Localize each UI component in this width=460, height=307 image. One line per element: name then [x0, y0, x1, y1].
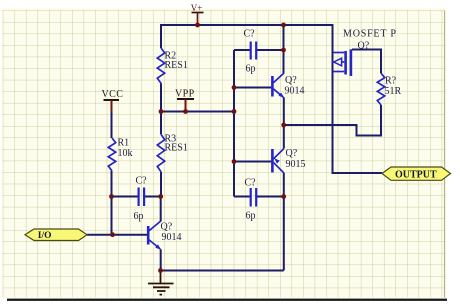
resistor R1: [108, 138, 132, 171]
wire VCC to R1: [111, 111, 113, 139]
wire right vertical upper: [283, 24, 285, 74]
wire R2 bottom lead: [160, 83, 162, 111]
wire VPP node row: [160, 111, 234, 113]
wire V+ rail top: [161, 24, 333, 26]
svg-text:Q?: Q?: [358, 41, 370, 52]
transistor Q3 9014: [148, 221, 181, 250]
svg-text:6p: 6p: [246, 64, 256, 75]
svg-text:9014: 9014: [285, 86, 305, 97]
junction emitter node tap: [281, 123, 286, 128]
wire mid vertical bus: [233, 50, 235, 197]
port I/O: [25, 229, 87, 241]
svg-text:Q?: Q?: [285, 75, 297, 86]
junction top rail / right bus: [281, 23, 286, 28]
svg-text:6p: 6p: [246, 211, 256, 222]
junction R2/R3 node: [159, 109, 164, 114]
svg-text:VCC: VCC: [102, 89, 124, 100]
wire Q2 base lead: [234, 161, 271, 163]
wire R3 top lead: [160, 112, 162, 135]
junction Q1 base tap: [232, 85, 237, 90]
port OUTPUT: [382, 167, 451, 180]
wire Q3 collector lead: [160, 196, 162, 221]
junction VPP row / mid bus: [232, 109, 237, 114]
wire ground rail bottom: [161, 270, 284, 272]
resistor R4 51R: [377, 73, 401, 105]
svg-text:9015: 9015: [286, 159, 306, 170]
wire R2 top lead: [160, 24, 162, 48]
transistor Q2 9015: [272, 148, 305, 173]
transistor Q4 MOSFET P: [333, 29, 397, 77]
svg-text:OUTPUT: OUTPUT: [395, 169, 437, 180]
transistor Q1 9014: [272, 73, 304, 98]
wire MOSFET drain drop: [332, 24, 334, 173]
junction VPP stem: [183, 109, 188, 114]
svg-text:9014: 9014: [162, 232, 182, 243]
svg-text:C?: C?: [136, 176, 148, 187]
capacitor C1 6p: [244, 29, 257, 75]
svg-text:RES1: RES1: [165, 60, 188, 71]
svg-text:RES1: RES1: [165, 143, 188, 154]
wire I/O to Q3 base: [87, 234, 147, 236]
capacitor C2 6p: [134, 176, 148, 223]
resistor R2: [157, 48, 188, 83]
power port V+: [191, 3, 204, 25]
wire C2 left lead: [112, 196, 138, 198]
svg-text:I/O: I/O: [38, 231, 52, 241]
svg-text:C?: C?: [244, 29, 256, 40]
svg-text:Q?: Q?: [286, 148, 298, 159]
junction C3 right lead: [281, 194, 286, 199]
junction I/O wire / R1 branch: [110, 232, 115, 237]
svg-text:51R: 51R: [385, 86, 402, 97]
svg-text:C?: C?: [245, 178, 257, 189]
svg-text:6p: 6p: [134, 211, 144, 222]
wire C3 right lead: [257, 196, 284, 198]
wire R1 bottom lead: [111, 171, 113, 235]
wire C1 left lead: [234, 49, 250, 51]
svg-text:R1: R1: [118, 138, 130, 149]
junction V+ on top rail: [195, 23, 200, 28]
junction Q2 base tap: [232, 159, 237, 164]
wire R3 bottom lead: [160, 172, 162, 197]
junction C2 right lead / R3 bottom: [158, 194, 163, 199]
junction C2 left lead: [109, 194, 114, 199]
wire C3 left lead: [234, 196, 250, 198]
svg-text:Q?: Q?: [161, 222, 173, 233]
wire emitter node to R4 bottom: [284, 105, 381, 136]
svg-text:MOSFET P: MOSFET P: [343, 29, 397, 40]
resistor R3: [157, 134, 188, 172]
wire Q1 emitter to Q2 emitter: [283, 97, 285, 148]
ground GND: [148, 271, 174, 295]
svg-text:V+: V+: [191, 3, 203, 13]
junction ground rail: [158, 268, 163, 273]
wire Q2 collector down: [283, 173, 285, 271]
wire Q3 emitter to ground rail: [160, 249, 162, 270]
svg-text:R?: R?: [385, 76, 397, 87]
wire to OUTPUT port: [332, 172, 383, 174]
wire Q1 base lead: [234, 87, 271, 89]
capacitor C3 6p: [245, 178, 257, 222]
wire C1 right lead: [257, 49, 284, 51]
svg-text:VPP: VPP: [175, 89, 195, 100]
wire C2 right lead: [145, 196, 161, 198]
power port VCC: [102, 89, 124, 112]
junction C1 right lead: [281, 48, 286, 53]
wire gate to R4 top: [352, 50, 381, 74]
power port VPP: [175, 89, 195, 112]
svg-text:10k: 10k: [118, 148, 133, 159]
